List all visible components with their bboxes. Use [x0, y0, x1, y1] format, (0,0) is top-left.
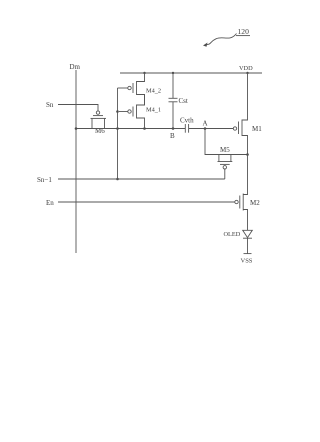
label Cst — [179, 97, 188, 105]
svg-text:M4_2: M4_2 — [146, 88, 161, 95]
label M5 — [220, 146, 230, 154]
label VSS — [241, 258, 253, 265]
wire gate bus of M4_1 M4_2 — [117, 88, 119, 179]
svg-text:Sn: Sn — [46, 101, 54, 109]
reference numeral 120 — [238, 27, 250, 36]
transistor M4_1 — [119, 95, 145, 129]
transistor M5 — [218, 155, 233, 180]
svg-text:M1: M1 — [252, 125, 262, 133]
VSS terminal — [244, 253, 252, 255]
wire M6 output row (node B row) — [76, 128, 185, 130]
data line label Dm — [70, 63, 81, 71]
svg-text:M2: M2 — [250, 199, 260, 207]
svg-text:Dm: Dm — [70, 63, 81, 71]
label M1 — [252, 125, 262, 133]
svg-text:A: A — [203, 120, 208, 128]
scan line label Sn-1 — [37, 176, 52, 184]
label OLED — [224, 231, 241, 238]
leader arrow to 120 — [205, 34, 237, 45]
junction M4 chain/row — [143, 127, 146, 130]
junction gate bus/Sn-1 — [116, 178, 119, 181]
label Cvth — [180, 117, 194, 125]
wire En emission line — [58, 201, 235, 203]
wire node A down to M5 row — [205, 129, 248, 155]
diode OLED — [243, 230, 253, 253]
label M4_1 — [146, 107, 161, 114]
junction rail/Cst — [172, 72, 174, 74]
junction M5 row/VDD drop — [246, 153, 249, 156]
svg-text:M5: M5 — [220, 146, 230, 154]
label M4_2 — [146, 88, 161, 95]
svg-text:Cst: Cst — [179, 97, 188, 105]
svg-text:B: B — [170, 132, 175, 140]
transistor M6 — [91, 111, 107, 129]
junction Dm/M6 row — [75, 127, 78, 130]
junction rail/VDD drop — [246, 72, 248, 74]
emission line label En — [46, 199, 54, 207]
svg-text:M4_1: M4_1 — [146, 107, 161, 114]
wire Dm data line — [75, 70, 77, 253]
svg-text:VDD: VDD — [239, 65, 253, 72]
transistor M4_2 — [118, 73, 145, 105]
scan line label Sn — [46, 101, 54, 109]
node B — [172, 127, 175, 130]
svg-text:En: En — [46, 199, 54, 207]
capacitor Cvth — [185, 124, 233, 133]
wire Sn-1 scan line — [58, 178, 225, 180]
svg-text:Cvth: Cvth — [180, 117, 194, 125]
wire VDD top rail — [120, 72, 262, 74]
underline of 120 — [236, 35, 250, 37]
label M2 — [250, 199, 260, 207]
transistor M2 — [235, 155, 248, 231]
transistor M1 — [233, 73, 247, 155]
label M6 — [95, 127, 105, 135]
node A — [204, 127, 207, 130]
svg-text:OLED: OLED — [224, 231, 241, 238]
capacitor Cst — [169, 73, 178, 129]
svg-text:120: 120 — [238, 27, 250, 36]
junction rail/M4 chain — [143, 72, 145, 74]
VDD label — [239, 65, 253, 72]
svg-text:Sn−1: Sn−1 — [37, 176, 52, 184]
wire Sn scan line — [58, 105, 98, 111]
junction gate bus/M6 row — [116, 127, 119, 130]
svg-text:VSS: VSS — [241, 258, 253, 265]
junction gate bus/M4_1 gate — [116, 110, 119, 113]
